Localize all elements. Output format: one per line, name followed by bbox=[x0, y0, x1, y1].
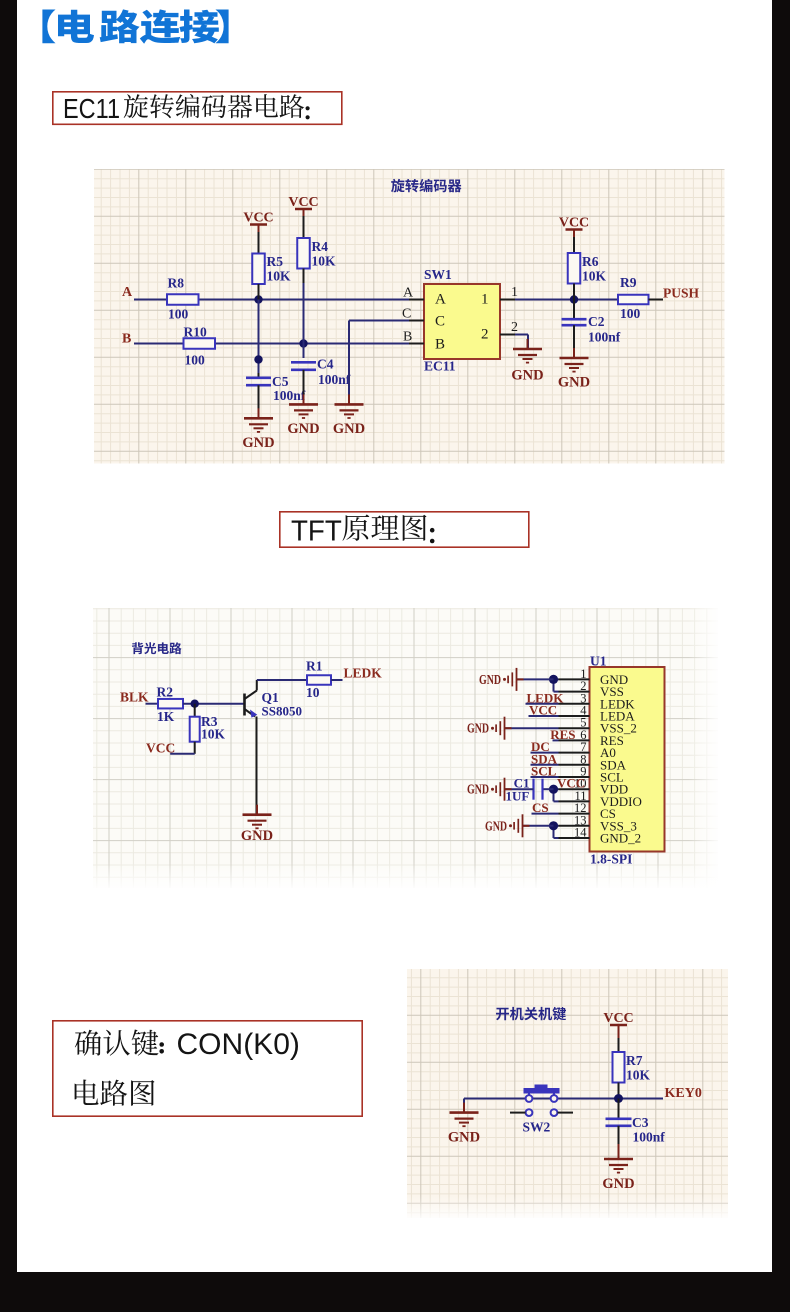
resistor R9 bbox=[618, 295, 649, 305]
SW1 pin A bbox=[409, 299, 424, 301]
U1 pin 1 bbox=[558, 678, 589, 680]
resistor R10 bbox=[184, 338, 216, 349]
capacitor C4 bbox=[291, 361, 316, 364]
ground C2 bbox=[573, 348, 575, 358]
svg-text:CON(K0): CON(K0) bbox=[177, 1028, 300, 1061]
wire C1-gnd bbox=[504, 788, 533, 790]
title 开机关机键 bbox=[496, 1007, 566, 1021]
schematic 2: TFT backlight + U1 bbox=[93, 608, 719, 888]
ground Q1 bbox=[256, 805, 258, 815]
node A-R5 bbox=[254, 295, 262, 303]
node base bbox=[190, 700, 198, 708]
wire R2-base bbox=[183, 703, 244, 705]
wire R9 to PUSH bbox=[649, 299, 664, 301]
title 旋转编码器 bbox=[391, 179, 462, 193]
resistor R5 bbox=[258, 232, 260, 254]
switch SW2 bbox=[524, 1088, 560, 1094]
wire net A bbox=[134, 299, 167, 301]
resistor R8 bbox=[167, 294, 199, 305]
U1 pin 2 bbox=[558, 691, 589, 693]
wire net B bbox=[134, 343, 184, 345]
wire pins10-11 bbox=[553, 788, 558, 790]
bottom black bar bbox=[0, 1272, 790, 1312]
schematic 1: rotary encoder EC11 bbox=[94, 169, 725, 464]
svg-text:EC11: EC11 bbox=[63, 93, 120, 124]
resistor R6 bbox=[573, 237, 575, 253]
box TFT bbox=[280, 512, 529, 547]
wire gnd1 bbox=[516, 678, 553, 680]
main wire bbox=[464, 1098, 663, 1100]
label SCL pin9 bbox=[530, 776, 558, 778]
resistor R7 bbox=[618, 1038, 620, 1052]
switch SW1 EC11 bbox=[424, 284, 500, 359]
wire gnd13 bbox=[522, 825, 553, 827]
label CS pin12 bbox=[531, 813, 558, 815]
SW1 pin 1 bbox=[500, 299, 515, 301]
resistor R4 bbox=[303, 216, 305, 238]
U1 pin 8 bbox=[558, 764, 589, 766]
wire pins13-14 bbox=[553, 825, 558, 827]
resistor R1 bbox=[307, 675, 331, 685]
label VCC pin4 bbox=[528, 715, 558, 717]
header 【电路连接】 bbox=[42, 9, 228, 43]
ground pin5 bbox=[504, 727, 511, 729]
U1 pin 10 bbox=[558, 788, 589, 790]
box CON(K0) bbox=[53, 1021, 362, 1116]
wire gnd pin5 bbox=[504, 727, 558, 729]
U1 pin 14 bbox=[558, 837, 589, 839]
node KEY0 bbox=[614, 1094, 623, 1103]
right black edge bbox=[772, 0, 790, 1312]
wire pin2 to gnd bbox=[515, 334, 528, 336]
IC U1 bbox=[589, 667, 664, 852]
wire VCC bbox=[170, 753, 195, 755]
left black edge bbox=[0, 0, 17, 1312]
U1 pin 9 bbox=[558, 776, 589, 778]
SW1 pin B bbox=[409, 343, 424, 345]
ground C4 bbox=[303, 394, 305, 404]
ground C3 bbox=[618, 1149, 620, 1159]
node C5 bbox=[254, 355, 262, 363]
U1 pin 11 bbox=[558, 800, 589, 802]
U1 pin 4 bbox=[558, 715, 589, 717]
U1 pin 7 bbox=[558, 752, 589, 754]
label RES pin6 bbox=[552, 739, 558, 741]
wire pin1 to R9 bbox=[515, 299, 618, 301]
ground C bbox=[348, 394, 350, 404]
wire emitter bbox=[255, 717, 257, 815]
wire A to C5 bbox=[258, 300, 260, 374]
capacitor C2 bbox=[573, 300, 575, 320]
capacitor C3 bbox=[618, 1099, 620, 1119]
node B-R4 bbox=[299, 339, 307, 347]
ground pins1-2 bbox=[516, 678, 523, 680]
SW1 pin C bbox=[409, 320, 424, 322]
wire collector bbox=[255, 680, 257, 691]
ground left bbox=[463, 1103, 465, 1113]
resistor R2 bbox=[158, 699, 183, 709]
wire net C bbox=[349, 320, 409, 322]
svg-text:TFT: TFT bbox=[291, 515, 342, 547]
wire R1-LEDK bbox=[331, 679, 343, 681]
wire BLK-R2 bbox=[145, 703, 158, 705]
box EC11 bbox=[53, 92, 342, 125]
wire pins1-2 bbox=[553, 678, 558, 680]
U1 pin 13 bbox=[558, 825, 589, 827]
resistor R3 bbox=[193, 704, 195, 717]
SW1 pin 2 bbox=[500, 334, 515, 336]
U1 pin 12 bbox=[558, 813, 589, 815]
label SDA pin8 bbox=[530, 764, 558, 766]
U1 pin 5 bbox=[558, 727, 589, 729]
ground pin13 bbox=[522, 825, 529, 827]
ground C1 bbox=[504, 788, 511, 790]
wire B to C4 bbox=[303, 283, 305, 358]
capacitor C1 bbox=[542, 788, 553, 790]
wire to gnd left bbox=[463, 1099, 465, 1113]
label LEDK pin3 bbox=[525, 703, 558, 705]
title 背光电路 bbox=[132, 642, 182, 654]
U1 pin 6 bbox=[558, 739, 589, 741]
ground C5 bbox=[258, 408, 260, 418]
label DC pin7 bbox=[530, 752, 558, 754]
ground pin2 bbox=[527, 339, 529, 349]
capacitor C5 bbox=[258, 373, 260, 377]
transistor Q1 SS8050 bbox=[243, 694, 246, 716]
schematic 3: power key bbox=[407, 969, 728, 1218]
U1 pin 3 bbox=[558, 703, 589, 705]
